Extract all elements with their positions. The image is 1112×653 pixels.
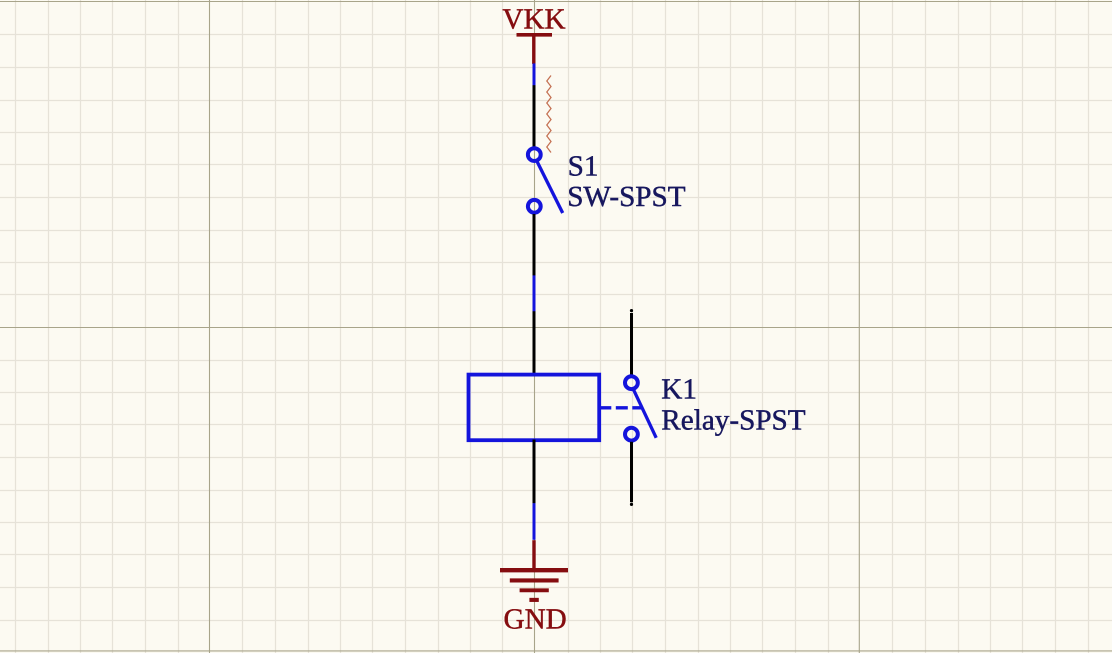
S1 top contact circle: [528, 148, 541, 161]
GND stem pin: [532, 540, 535, 571]
GND bar 3: [520, 588, 549, 592]
GND bar 2: [510, 578, 559, 582]
switch S1: [528, 85, 686, 276]
svg-text:S1: S1: [568, 150, 599, 182]
VKK bar symbol: [517, 33, 553, 37]
ERC warning squiggle: [547, 76, 551, 153]
S1 bottom contact circle: [528, 200, 541, 213]
svg-text:Relay-SPST: Relay-SPST: [661, 405, 805, 437]
K1 blade: [634, 390, 657, 438]
svg-text:VKK: VKK: [502, 4, 565, 36]
K1 bottom contact circle: [625, 428, 638, 441]
K1 contact pin 3 end dot: [630, 309, 633, 312]
power port VKK: [502, 4, 565, 64]
svg-text:SW-SPST: SW-SPST: [567, 181, 686, 213]
K1 contact pin 4: [630, 442, 633, 502]
wire S1 to K1 coil: [533, 275, 536, 311]
svg-text:GND: GND: [504, 604, 567, 636]
K1 top contact circle: [625, 376, 638, 389]
K1 coil pin 2: [533, 440, 536, 504]
VKK stem pin: [532, 35, 535, 64]
wire K1 coil to GND: [533, 503, 536, 540]
wire VKK to S1: [533, 63, 536, 85]
power port GND: [500, 540, 568, 635]
K1 contact pin 3: [630, 313, 633, 375]
K1 actuation dashed link: [599, 406, 641, 409]
GND bar 4: [529, 598, 538, 602]
S1 blade: [537, 161, 563, 213]
K1 contact pin 4 end dot: [630, 503, 633, 506]
S1 pin 2: [533, 214, 536, 276]
K1 coil body: [469, 375, 600, 441]
GND bar 1: [500, 568, 568, 572]
svg-text:K1: K1: [661, 373, 697, 405]
S1 pin 1: [533, 85, 536, 147]
relay K1: [469, 309, 806, 506]
K1 coil pin 1: [533, 311, 536, 375]
